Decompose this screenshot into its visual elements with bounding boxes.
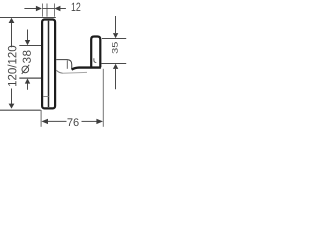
node label 120/120 [8,46,17,86]
wire dim 76 line right [82,120,98,122]
node dim 12 arrow left [54,6,60,12]
wire dim 76 line left [48,120,67,122]
wire dim d38 lower stub [27,84,29,90]
node label d38 [23,51,31,63]
escutcheon plate outline [42,20,55,109]
wire dim 76 ext line right [102,69,104,127]
wire dim 120/120 lower [11,89,13,105]
wire dim 35 upper stub [115,16,117,33]
arm boss inner edge line [66,60,68,69]
node label diameter symbol [22,66,29,73]
node label 35 [112,42,118,53]
wire dim 120/120 upper [11,23,13,48]
node label 12 [72,3,81,11]
wire dim 76 ext line left [40,110,42,127]
arm top fillet curve [56,60,72,70]
node dim 120/120 arrow up [9,18,15,23]
wire bottom reference line [0,109,41,111]
node dim 76 arrow left [41,119,48,124]
node dim 35 arrow up [113,64,118,69]
wire dim 35 bottom ref line [101,63,126,65]
hook pin outline [91,37,100,68]
wire dim 35 lower stub [115,69,117,90]
wire dim 12 line mid [43,8,55,10]
pin inner fillet mark [94,58,96,62]
node dim 120/120 arrow down [9,104,15,109]
wire dim 12 line left [24,8,37,10]
node dim d38 arrow down [25,40,30,45]
node dim d38 arrow up [25,78,30,83]
node dim 76 arrow right [96,119,103,124]
wire top reference line [0,17,56,19]
node dim 12 arrow right [36,6,42,12]
wire dim 12 ext line right [54,4,56,17]
wire dim d38 upper stub [27,30,29,41]
wire dim 12 ext line mid [46,4,48,17]
wire dim 12 line right [59,8,66,10]
arm bottom fillet [56,70,62,73]
wire d38 bottom ref line [19,77,41,79]
node dim 35 arrow down [113,33,118,38]
wire d38 top ref line [19,45,41,47]
escutcheon plate inner contour line [48,21,50,107]
arm underside line [62,71,87,74]
arm top line [72,68,101,70]
wire dim 35 top ref line [102,38,126,40]
wire dim 12 ext line left [42,4,44,17]
node label 76 [67,118,78,126]
escutcheon seam line [43,96,48,98]
